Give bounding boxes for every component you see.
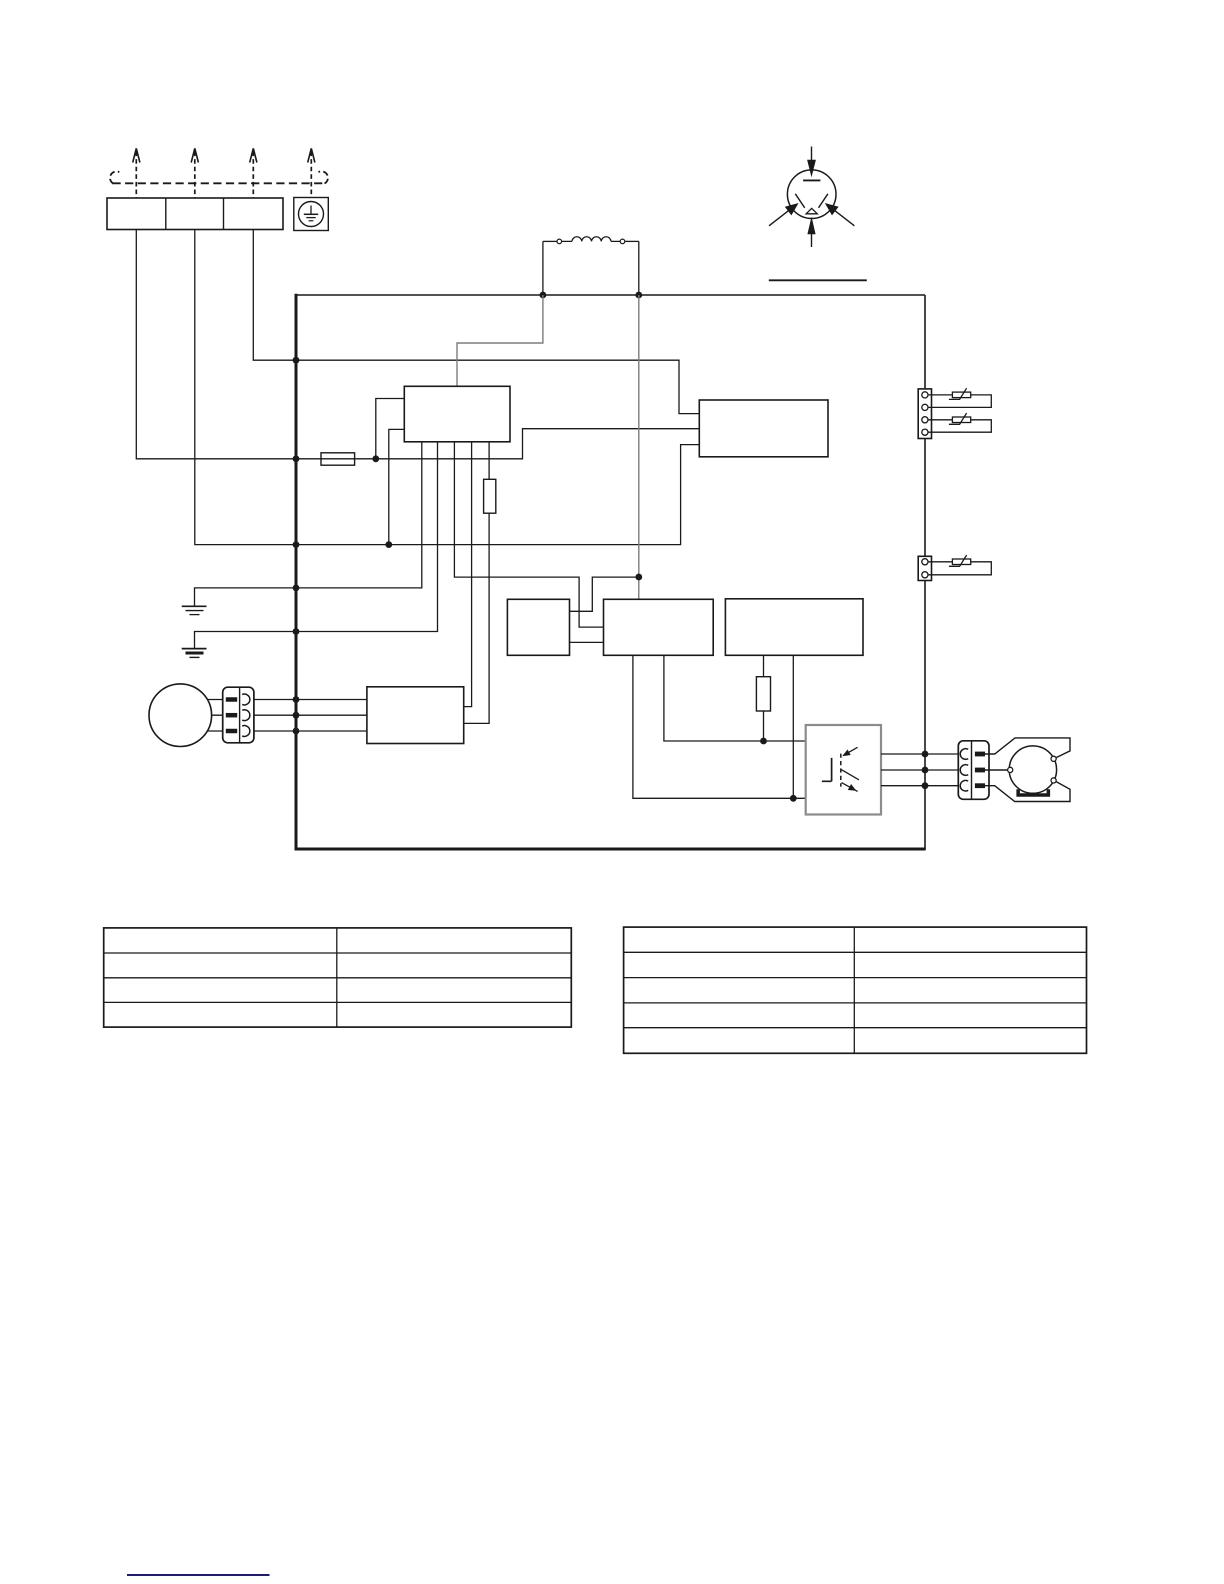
wire: reactor node down to U4 top pin (grey) xyxy=(638,295,640,599)
junction: pole-2 wire on left bus xyxy=(293,541,300,548)
block U6 xyxy=(725,599,863,656)
compressor internal right stroke xyxy=(819,194,828,208)
junction: N-wire node under U1 xyxy=(385,541,392,548)
wire: PC1 output 2 to fan connector xyxy=(881,769,958,771)
junction: motor lead U on left bus xyxy=(293,696,300,703)
legend table 1 (4 rows x 2 cols) xyxy=(104,928,572,1027)
CN4 socket contact 2 xyxy=(960,765,968,776)
CN3 pin 1 (male blade) xyxy=(226,697,237,702)
wire: U1 bottom pin2 to chassis ground G2 xyxy=(195,442,438,648)
thermistor TH3 strike xyxy=(949,555,967,566)
junction: pole-3 wire on left bus xyxy=(293,357,300,364)
junction: fuse output node xyxy=(372,455,379,462)
wire: top rail tap to U1 top pin (grey) xyxy=(457,295,543,386)
wire: CN3 pin3 to U5 xyxy=(254,730,367,732)
PC1 internal middle stroke xyxy=(842,770,859,780)
CN2 pin 2 xyxy=(922,572,928,578)
CN1 pin 4 xyxy=(922,429,928,435)
wire: U1 left pin A to fuse node xyxy=(376,399,405,459)
fan motor frame upper lead xyxy=(985,738,1070,758)
field wiring boundary right hook xyxy=(319,171,328,183)
power lead arrow 2 (to field supply) xyxy=(194,152,196,198)
thermistor TH2 body xyxy=(952,417,970,423)
ground G2 (chassis ground) xyxy=(182,648,207,650)
thermistor TH1 strike xyxy=(949,388,967,399)
wire: motor M1 lead W xyxy=(180,730,222,732)
wire: U3 right pin2 to U4 left pin2 xyxy=(570,641,604,643)
wire: PC1 output 1 to fan connector xyxy=(881,753,958,755)
fuse F1 xyxy=(321,453,355,465)
junction: output-2 on right rail xyxy=(922,767,929,774)
optocoupler / fan driver PC1 xyxy=(806,725,881,815)
connector CN2 (thermistor header, 2 pins) xyxy=(918,556,931,580)
junction: motor lead V on left bus xyxy=(293,712,300,719)
wire: top rail xyxy=(295,294,925,296)
CN3 socket contact 3 xyxy=(242,726,250,737)
wire: U1 bottom pin1 to signal ground G1 xyxy=(195,442,422,606)
fan motor terminal 3 xyxy=(1051,778,1056,783)
wire: terminal pole 2 (N) to block U2 pin3 xyxy=(195,230,700,545)
protective earth terminal box xyxy=(294,198,329,231)
junction: output-1 on right rail xyxy=(922,751,929,758)
field wiring boundary left hook xyxy=(110,172,119,184)
wire: PC1 output 3 to fan connector xyxy=(881,785,958,787)
CN2 pin 1 xyxy=(922,559,928,565)
field wiring boundary dash-dot line xyxy=(113,182,326,184)
thermistor TH1 body xyxy=(952,392,970,398)
control block U1 xyxy=(404,386,510,442)
reactor L1 coil xyxy=(562,240,621,242)
wire: CN1 pin1 to thermistor TH1 xyxy=(928,394,952,396)
CN3 socket contact 1 xyxy=(242,694,250,705)
inverter output block U5 xyxy=(367,687,464,744)
wire: TH2 return to CN1 pin4 xyxy=(928,420,991,432)
terminal block TB1 (power supply terminal strip, 3 poles) xyxy=(107,198,283,230)
PC1 internal upper arrow xyxy=(847,747,858,753)
CN3 pin 3 (male blade) xyxy=(226,729,237,734)
wire: U4 bottom pin2 to PC1 input A xyxy=(664,655,806,741)
wire: right rail upper segment xyxy=(924,295,926,389)
fan motor middle lead xyxy=(985,769,1008,771)
wire: U4 bottom pin1 to PC1 input B xyxy=(633,655,806,798)
junction: motor lead W on left bus xyxy=(293,728,300,735)
fan motor mounting bracket xyxy=(1016,789,1050,796)
compressor COMP body xyxy=(787,170,836,219)
PC1 internal gate symbol xyxy=(822,758,832,781)
compressor motor M1 xyxy=(149,684,212,747)
wire: TH1 return to CN1 pin2 xyxy=(928,395,991,408)
wire: terminal pole 3 to node at y360 and to block U2 pin1 xyxy=(253,230,699,414)
junction: ground-1 wire on left bus xyxy=(293,585,300,592)
thermistor TH2 strike xyxy=(949,413,967,424)
wire: U3 right pin1 to grey node xyxy=(570,577,639,611)
block U3 xyxy=(507,599,569,655)
wire: U1 bottom pin4 to U5 right pin1 xyxy=(464,442,472,707)
wire: terminal pole 1 (L) through fuse to block U2 pin2 xyxy=(136,230,699,459)
CN1 pin 3 xyxy=(922,417,928,423)
CN3 socket contact 2 xyxy=(242,710,250,721)
fan motor frame lower lead xyxy=(985,782,1070,802)
power lead arrow 1 (to field supply) xyxy=(135,152,137,198)
thermistor TH3 body xyxy=(952,559,970,565)
wire: motor M1 lead U xyxy=(180,699,222,701)
wire: right rail lower segment xyxy=(924,581,926,850)
PC1 internal lower arrow xyxy=(842,783,858,792)
connector CN1 (thermistor header, 4 pins) xyxy=(918,389,931,439)
CN4 pin 2 (male blade) xyxy=(975,768,985,773)
fan motor terminal 1 xyxy=(1008,767,1013,772)
wire: right rail between connectors xyxy=(924,438,926,556)
earth symbol inside terminal box xyxy=(310,206,312,215)
wire: TH3 return to CN2 pin2 xyxy=(928,562,991,575)
reactor L1 right terminal circle xyxy=(625,240,639,242)
reactor L1 left lead xyxy=(542,241,544,295)
CN3 pin 2 (male blade) xyxy=(226,713,237,718)
connector CN3 (motor plug) xyxy=(223,687,254,743)
junction: reactor left on top rail xyxy=(540,292,547,299)
wire: U1 left pin B to N node xyxy=(389,429,405,544)
wire: bottom bus (thick horizontal) xyxy=(295,848,926,851)
junction: grey wire node to relay drive xyxy=(635,574,642,581)
wire: motor M1 lead V xyxy=(180,714,222,716)
compressor top terminal bar xyxy=(803,179,820,181)
CN4 pin 1 (male blade) xyxy=(975,752,985,757)
power lead arrow 4 (to field supply) xyxy=(310,152,312,198)
wire: CN1 pin3 to thermistor TH2 xyxy=(928,419,952,421)
reactor L1 right lead xyxy=(638,241,640,295)
compressor bottom arrow xyxy=(811,234,813,247)
CN4 socket contact 3 xyxy=(960,780,968,791)
CN4 pin 3 (male blade) xyxy=(975,783,985,788)
compressor internal triangle xyxy=(806,208,817,213)
fan motor terminal 2 xyxy=(1051,756,1056,761)
compressor top arrow xyxy=(811,147,813,162)
compressor lower-right arrow xyxy=(835,211,855,226)
wire: U6 bottom pin2 xyxy=(792,655,794,798)
wire: CN2 pin1 to thermistor TH3 xyxy=(928,561,952,563)
junction: U6 pin2 on PC1 input B wire xyxy=(790,795,797,802)
power input block U2 xyxy=(699,400,828,457)
compressor internal left stroke xyxy=(795,194,804,208)
junction: ground-2 wire on left bus xyxy=(293,628,300,635)
junction: reactor right on top rail xyxy=(635,292,642,299)
CN4 socket contact 1 xyxy=(960,749,968,760)
connector CN4 (fan motor plug) xyxy=(958,741,989,800)
power lead arrow 3 (to field supply) xyxy=(252,152,254,198)
wire: U6 bottom pin1 through R2 xyxy=(763,655,765,741)
fan motor FM body xyxy=(1009,746,1056,793)
resistor R1 xyxy=(484,479,496,513)
compressor label underline xyxy=(769,279,867,281)
CN1 pin 1 xyxy=(922,392,928,398)
block U4 xyxy=(604,599,714,655)
wire: CN3 pin1 to U5 xyxy=(254,699,367,701)
wire: left supply bus (thick vertical) xyxy=(295,294,298,851)
compressor lower-left arrow xyxy=(769,211,789,226)
junction: output-3 on right rail xyxy=(922,782,929,789)
wire: U1 bottom pin5 through R1 to U5 right pin2 xyxy=(464,442,489,724)
ground G1 (signal ground) xyxy=(182,605,207,607)
CN1 pin 2 xyxy=(922,404,928,410)
PC1 internal dashed bar xyxy=(840,754,842,787)
reactor L1 left terminal circle xyxy=(543,240,557,242)
legend table 2 (5 rows x 2 cols) xyxy=(624,927,1087,1053)
junction: R2 on PC1 input A wire xyxy=(760,738,767,745)
junction: pole-1 wire on left bus xyxy=(293,455,300,462)
wire: CN3 pin2 to U5 xyxy=(254,714,367,716)
resistor R2 xyxy=(756,677,770,711)
wire: U1 bottom pin3 to U4 left pin xyxy=(454,442,603,627)
footer blue rule xyxy=(127,1574,270,1576)
